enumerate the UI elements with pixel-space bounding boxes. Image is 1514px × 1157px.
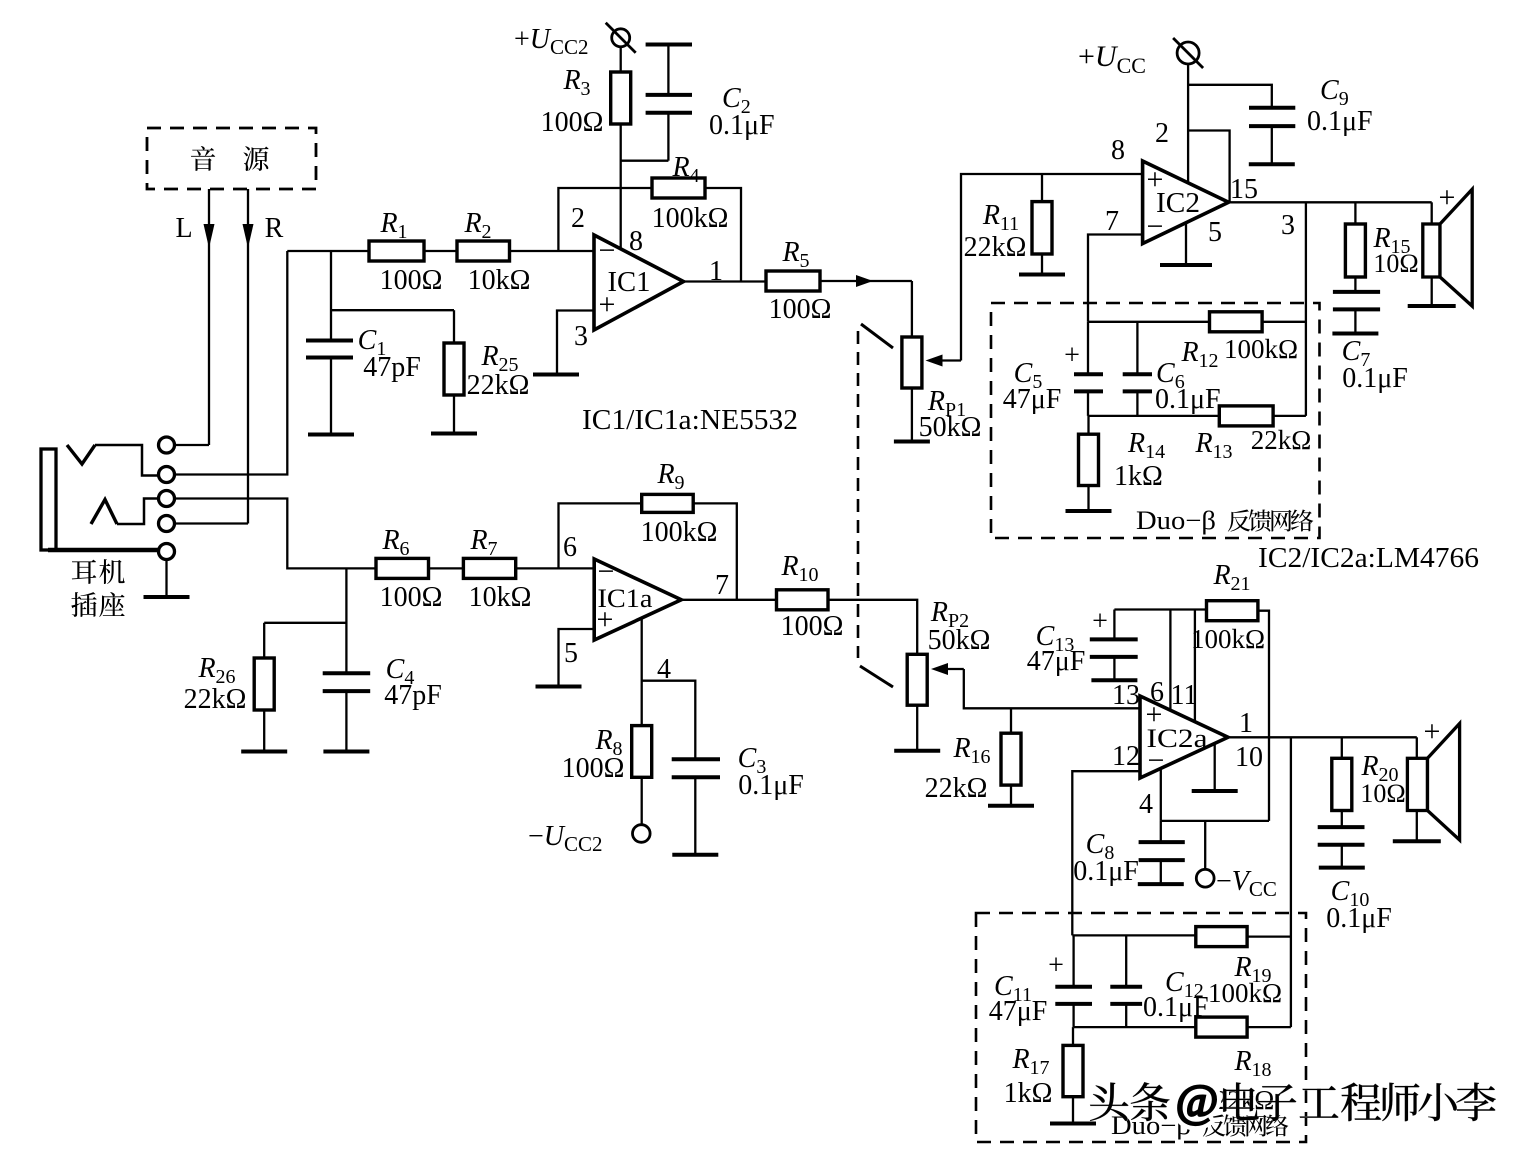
wire contact3 to input node R [175, 499, 377, 569]
resistor R20 [1332, 737, 1406, 810]
wire R6 to R7 [429, 567, 464, 569]
svg-text:100kΩ: 100kΩ [1191, 624, 1265, 654]
pin label 7 (IC1a output) [715, 570, 729, 601]
resistor R19 [1196, 927, 1282, 1008]
pin label 6 (IC2a) [1150, 677, 1164, 708]
resistor R10 [777, 551, 844, 642]
svg-text:100kΩ: 100kΩ [1224, 334, 1298, 364]
ground speaker 2 [1393, 839, 1441, 843]
svg-text:5: 5 [564, 638, 578, 669]
svg-text:0.1μF: 0.1μF [709, 110, 775, 141]
wire IC1a pin 4 node [642, 618, 696, 759]
wire feedback 2 top node [1072, 934, 1196, 936]
svg-text:10kΩ: 10kΩ [468, 265, 531, 296]
resistor R5 [766, 237, 831, 325]
svg-text:1kΩ: 1kΩ [1114, 461, 1163, 492]
ground R11 [1019, 273, 1065, 277]
svg-text:7: 7 [715, 570, 729, 601]
resistor R26 [184, 623, 275, 752]
capacitor C12 [1110, 935, 1208, 1027]
wire IC2 inverting input (pin 7) down to feedback [1088, 235, 1143, 322]
wire feedback bottom node [1088, 415, 1219, 417]
svg-text:IC2a: IC2a [1147, 724, 1209, 753]
capacitor C8 [1073, 821, 1185, 887]
wire R9 to IC1a output [693, 503, 737, 599]
ground speaker [1408, 304, 1456, 308]
svg-text:4: 4 [657, 654, 671, 685]
terminal -Vcc [1196, 821, 1277, 901]
pin label 5 (IC1a) [564, 638, 578, 669]
ground C1 [308, 433, 354, 437]
resistor R15 [1345, 202, 1418, 278]
ground RP1 [894, 440, 930, 444]
svg-text:0.1μF: 0.1μF [1073, 856, 1139, 887]
wire IC2a output to speaker [1228, 736, 1417, 738]
wire R19 to output branch [1247, 935, 1291, 937]
wire input node R to R6 (drawn above) [345, 568, 347, 673]
resistor R4 [652, 152, 729, 234]
feedback network 2 dashed box [976, 913, 1306, 1142]
pin label 1 (IC2a output) [1239, 708, 1253, 739]
label Duo-beta network 1 [1136, 506, 1313, 535]
resistor R17 [1004, 1027, 1083, 1123]
svg-text:3: 3 [1281, 210, 1295, 241]
capacitor C4 [323, 654, 442, 752]
capacitor C5 [1003, 322, 1103, 416]
resistor R1 [369, 208, 442, 296]
ground R14 [1066, 509, 1112, 513]
wire R3 to IC1 power (pin 8) [620, 124, 622, 249]
svg-text:+: + [1439, 181, 1456, 214]
wire IC1 noninverting input (pin 3) to ground [557, 311, 594, 375]
wire C1 node to R25 [331, 309, 454, 311]
resistor R25 [444, 310, 529, 433]
resistor R12 [1180, 312, 1298, 372]
wire R7 to IC1a inverting input (pin 6) [516, 567, 595, 569]
wire +Ucc branch to C9 [1188, 85, 1272, 108]
capacitor C10 [1318, 811, 1392, 935]
wire output down to feedback 2 [1290, 737, 1292, 1027]
wire pin 15 supply link [1188, 131, 1230, 203]
svg-text:11: 11 [1171, 680, 1198, 711]
pin label 6 [563, 532, 577, 563]
capacitor C1 [306, 251, 421, 435]
ground R17 [1050, 1122, 1096, 1126]
svg-text:22kΩ: 22kΩ [964, 232, 1027, 263]
ground R16 [988, 804, 1034, 808]
op-amp IC1a [594, 555, 681, 640]
svg-text:IC1/IC1a:NE5532: IC1/IC1a:NE5532 [582, 405, 798, 436]
wire IC2 pin 5 to ground [1185, 223, 1187, 266]
pin label 2 [571, 203, 585, 234]
potentiometer RP2 [907, 597, 990, 705]
ground R26 [241, 750, 287, 754]
svg-text:22kΩ: 22kΩ [467, 370, 530, 401]
svg-text:0.1μF: 0.1μF [1342, 363, 1408, 394]
wire input node to R1 [287, 250, 369, 252]
wire contact4 to R line [175, 522, 249, 524]
resistor R13 [1194, 406, 1311, 463]
svg-text:100Ω: 100Ω [562, 753, 625, 784]
svg-text:IC1: IC1 [608, 267, 651, 298]
wire R4 to IC1 output [705, 188, 741, 282]
wire R from source to jack contact 4 [243, 189, 254, 524]
svg-text:L: L [175, 213, 192, 244]
resistor R9 [641, 459, 718, 548]
wire R26 to C4 node [264, 622, 346, 624]
svg-text:100Ω: 100Ω [380, 582, 443, 613]
wire R13 to output branch [1273, 415, 1306, 417]
capacitor C3 [672, 743, 804, 855]
caption IC2/IC2a:LM4766 [1258, 543, 1479, 574]
ground jack sleeve [144, 560, 190, 598]
capacitor C13 [1027, 606, 1138, 680]
wire RP1 wiper to IC2 pin 8 [961, 174, 1143, 361]
ground C7 [1332, 332, 1378, 336]
svg-text:8: 8 [1111, 135, 1125, 166]
wire IC2 output to speaker [1229, 201, 1432, 203]
svg-text:10Ω: 10Ω [1360, 779, 1405, 808]
svg-text:10Ω: 10Ω [1373, 249, 1418, 278]
terminal +Ucc [1078, 38, 1203, 78]
resistor R18 [1196, 1017, 1274, 1115]
wire RP2 wiper to IC2a pin 13 [964, 669, 1140, 708]
svg-text:4: 4 [1139, 789, 1153, 820]
pin label 3 [574, 321, 588, 352]
jack contact 1 (tip L) [159, 437, 175, 453]
wire contact2 to input node L [175, 251, 288, 475]
speaker right channel [1407, 715, 1459, 840]
jack contact 3 [159, 491, 175, 507]
pin label 15 [1230, 174, 1258, 205]
label R channel [265, 213, 284, 244]
svg-text:22kΩ: 22kΩ [184, 684, 247, 715]
svg-text:+: + [1064, 340, 1080, 371]
svg-text:13: 13 [1112, 680, 1140, 711]
caption IC1/IC1a:NE5532 [582, 405, 798, 436]
watermark 头条@电子工程师小李 [1090, 1075, 1496, 1126]
pin label 7 (IC2) [1105, 206, 1119, 237]
ground C4 [323, 750, 369, 754]
svg-text:50kΩ: 50kΩ [919, 412, 982, 443]
pin label 8 [629, 226, 643, 257]
wire R21 to mute rail [1258, 611, 1269, 821]
ground pin 3 [533, 373, 579, 377]
svg-text:Duo−β: Duo−β [1136, 506, 1216, 535]
pin label 8 (IC2) [1111, 135, 1125, 166]
wire R2 to IC1 inverting input (pin 2) [510, 250, 595, 252]
ground C10 [1319, 866, 1365, 870]
feedback network 1 dashed box [991, 303, 1320, 538]
wire pin 11 supply [1194, 610, 1196, 723]
svg-text:3: 3 [574, 321, 588, 352]
wire IC2a pin 10 to ground [1214, 743, 1216, 791]
pin label 10 [1235, 742, 1263, 773]
svg-text:47pF: 47pF [384, 680, 442, 711]
svg-text:15: 15 [1230, 174, 1258, 205]
wire speaker 2 to ground [1416, 811, 1418, 842]
label Duo-beta network 2 [1111, 1111, 1288, 1140]
wire IC1a pin 5 to ground [559, 629, 595, 687]
svg-text:10: 10 [1235, 742, 1263, 773]
svg-text:R: R [265, 213, 284, 244]
gang coupling dashed link RP1-RP2 [858, 324, 893, 687]
svg-text:−: − [599, 234, 616, 267]
wire L from source to jack contact 1 [204, 189, 215, 445]
wire output down to feedback network [1305, 202, 1307, 416]
svg-text:IC2/IC2a:LM4766: IC2/IC2a:LM4766 [1258, 543, 1479, 574]
ground C3 [672, 853, 718, 857]
resistor R6 [376, 525, 442, 613]
potentiometer RP1 [902, 337, 982, 443]
ground R25 [431, 432, 477, 436]
terminal +Ucc2 [514, 23, 636, 59]
jack contact 4 (ring R) [159, 516, 175, 532]
svg-text:47μF: 47μF [1003, 384, 1062, 415]
capacitor C2 [621, 45, 775, 161]
svg-text:+: + [1092, 606, 1108, 637]
op-amp IC1 [594, 234, 684, 330]
resistor R21 [1191, 560, 1265, 654]
wire R18 to output branch [1247, 1026, 1291, 1028]
resistor R8 [562, 725, 652, 784]
svg-text:IC1a: IC1a [598, 584, 653, 613]
svg-text:2: 2 [1155, 118, 1169, 149]
svg-text:+: + [1048, 950, 1064, 981]
svg-text:2: 2 [571, 203, 585, 234]
capacitor C7 [1333, 277, 1408, 394]
pin label 1 [709, 256, 723, 287]
svg-text:1kΩ: 1kΩ [1004, 1078, 1053, 1109]
resistor R14 [1079, 416, 1166, 511]
wire IC1a output to R10 [681, 599, 776, 601]
svg-text:50kΩ: 50kΩ [928, 625, 991, 656]
pin label 12 [1112, 741, 1140, 772]
pin label 11 [1171, 680, 1198, 711]
svg-text:10kΩ: 10kΩ [469, 582, 532, 613]
svg-text:100Ω: 100Ω [781, 611, 844, 642]
headphone jack body [41, 445, 159, 550]
svg-text:47μF: 47μF [989, 996, 1048, 1027]
wire pin6 node to R9 [559, 503, 642, 568]
op-amp IC2a [1140, 696, 1228, 778]
svg-text:@: @ [1176, 1075, 1218, 1126]
wire feedback 2 bottom node [1074, 1026, 1196, 1028]
svg-text:8: 8 [629, 226, 643, 257]
svg-text:0.1μF: 0.1μF [1307, 106, 1373, 137]
svg-text:0.1μF: 0.1μF [1155, 384, 1221, 415]
pin label 5 (IC2) [1208, 217, 1222, 248]
ground C13 [1091, 678, 1137, 682]
svg-text:47pF: 47pF [363, 352, 421, 383]
ground C9 [1249, 162, 1295, 166]
pin label 2 (IC2) [1155, 118, 1169, 149]
ground pin 10 [1192, 789, 1238, 793]
wire RP1 bottom to ground [911, 388, 913, 442]
resistor R16 [925, 708, 1021, 806]
jack contact 2 [159, 467, 175, 483]
ground RP2 [894, 749, 940, 753]
ground pin 5 IC1a [536, 685, 582, 689]
svg-text:IC2: IC2 [1156, 188, 1200, 219]
svg-text:+: + [1424, 715, 1441, 748]
svg-text:0.1μF: 0.1μF [1326, 903, 1392, 934]
supply rail C13/R21 [1114, 608, 1206, 610]
svg-text:1: 1 [1239, 708, 1253, 739]
label 耳机插座 [71, 559, 124, 617]
op-amp IC2 [1143, 161, 1229, 244]
svg-text:100Ω: 100Ω [380, 265, 443, 296]
resistor R7 [463, 525, 531, 613]
wire R8 to -Ucc2 [641, 777, 643, 824]
pin label 3 (IC2 output) [1281, 210, 1295, 241]
wire R5 to RP1 (with arrow) [820, 275, 912, 337]
wire IC2a inverting input (pin 12) to feedback 2 [1072, 771, 1140, 935]
capacitor C6 [1123, 322, 1221, 416]
pin label 4 (IC2a) [1139, 789, 1153, 820]
svg-text:100Ω: 100Ω [769, 294, 832, 325]
ground pin 5 [1160, 263, 1212, 267]
svg-text:100Ω: 100Ω [541, 107, 604, 138]
wire IC1 output to R5 [684, 280, 767, 282]
svg-text:5: 5 [1208, 217, 1222, 248]
terminal -Ucc2 [528, 821, 650, 856]
wire pin 4 mute rail [1161, 769, 1269, 821]
wire RP2 bottom to ground [916, 705, 918, 751]
svg-text:0.1μF: 0.1μF [738, 770, 804, 801]
svg-text:100kΩ: 100kΩ [652, 203, 729, 234]
speaker left channel [1423, 181, 1472, 306]
svg-text:22kΩ: 22kΩ [1251, 425, 1312, 455]
svg-text:12: 12 [1112, 741, 1140, 772]
audio source box (音源) [147, 128, 316, 189]
resistor R3 [541, 47, 631, 138]
wire R10 to RP2 [828, 600, 917, 655]
svg-text:47μF: 47μF [1027, 646, 1086, 677]
svg-text:7: 7 [1105, 206, 1119, 237]
capacitor C11 [989, 935, 1092, 1027]
wire pin 6 supply [1169, 610, 1171, 711]
svg-text:6: 6 [1150, 677, 1164, 708]
wire feedback top node [1088, 321, 1210, 323]
jack contact 5 (sleeve) [159, 544, 175, 560]
capacitor C9 [1249, 75, 1373, 164]
label L channel [175, 213, 192, 244]
pin label 4 (IC1a) [657, 654, 671, 685]
pin label 13 [1112, 680, 1140, 711]
svg-text:22kΩ: 22kΩ [925, 773, 988, 804]
ground C8 [1138, 882, 1184, 886]
resistor R11 [964, 174, 1052, 275]
wire +Ucc to IC2 power (pin 2) [1187, 64, 1189, 183]
wire pin2 node up to R4 [558, 188, 652, 251]
wire R12 to output branch [1262, 321, 1306, 323]
svg-text:100kΩ: 100kΩ [641, 517, 718, 548]
svg-text:6: 6 [563, 532, 577, 563]
resistor R2 [457, 208, 530, 296]
svg-text:100kΩ: 100kΩ [1208, 978, 1282, 1008]
wire R1 to R2 [424, 250, 457, 252]
wire contact1 to L line [175, 444, 210, 446]
wire speaker to ground [1431, 277, 1433, 306]
